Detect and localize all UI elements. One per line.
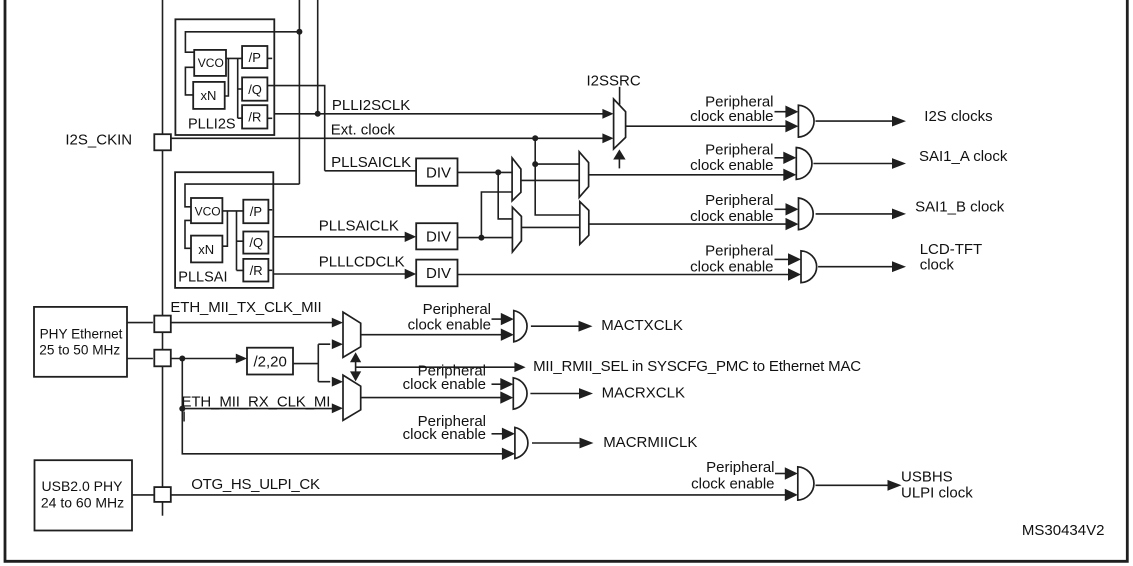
PLL block PLLSAI : outer box (175, 172, 273, 288)
wire+arrow: SAI1_B output (816, 213, 893, 215)
mux D (stage2 lower, SAI1_B) (580, 202, 589, 245)
svg-text:clock enable: clock enable (690, 258, 773, 275)
wire: xN left feedback to VCO (PLLSAI) (185, 220, 191, 248)
wire+arrow: I2S clocks output (816, 120, 893, 122)
arrow: PLLI2SCLK into I2SSRC mux input1 (602, 109, 613, 119)
svg-text:25 to 50 MHz: 25 to 50 MHz (39, 343, 120, 358)
svg-text:PLLLCDCLK: PLLLCDCLK (319, 253, 405, 270)
divider /2,20 (247, 348, 293, 375)
divider /R (PLLSAI) (243, 259, 268, 282)
wire: MII_RMII_SEL line going right (356, 366, 515, 368)
node: DIV2 output branch (478, 235, 484, 241)
wire: xN right loop (PLLSAI) (222, 211, 227, 246)
wire: PLLSAICLK lower line to DIV2 (273, 236, 405, 238)
mux C (stage2 upper, SAI1_A) (579, 152, 588, 198)
wire: DIV2 branch up to mux A input2 (481, 192, 512, 238)
svg-text:clock enable: clock enable (408, 317, 491, 334)
wire: bus between I2S pad and eth pad1 (162, 150, 164, 315)
svg-text:OTG_HS_ULPI_CK: OTG_HS_ULPI_CK (191, 476, 320, 493)
svg-text:I: I (182, 409, 186, 426)
svg-text:MII_RMII_SEL in SYSCFG_PMC to: MII_RMII_SEL in SYSCFG_PMC to Ethernet M… (533, 358, 861, 375)
arrow: /2,20 to mux F input1 (332, 377, 343, 387)
node: junction v2 / PLLI2SCLK line (315, 111, 321, 117)
gate AND (SAI1_B enable) (799, 198, 814, 230)
wire: mux A output to mux C input2 (521, 179, 579, 181)
gate AND (LCD-TFT enable) (801, 251, 817, 283)
box USB2.0 PHY (35, 460, 133, 530)
pad ETH_MII_RX_CLK (on bus) (154, 350, 171, 367)
node: eth pad2 branch (179, 356, 185, 362)
wire: bus between eth pad2 and usb pad (162, 366, 164, 487)
wire: OTG_HS_ULPI_CK line to USBHS gate (171, 494, 787, 496)
PLL block PLLI2S : outer box (175, 19, 274, 135)
wire: ETH_MII_TX_CLK_MII line to mux E input1 (171, 322, 332, 324)
svg-text:clock enable: clock enable (690, 108, 773, 125)
wire: /P output stub (PLLSAI) (268, 209, 272, 211)
wire: VCO output trunk (PLLI2S) (226, 58, 242, 118)
wire+arrows: MII_RMII_SEL select between muxes (355, 362, 357, 373)
mux A (stage1 upper) (512, 158, 521, 201)
multiplier xN (PLLI2S) (193, 82, 225, 109)
wire: xN right loop (PLLI2S) (225, 58, 229, 96)
wire: USB box to pad (132, 494, 154, 496)
svg-text:USB2.0 PHY: USB2.0 PHY (42, 478, 124, 494)
svg-text:PLLSAICLK: PLLSAICLK (331, 154, 411, 171)
svg-text:MACTXCLK: MACTXCLK (601, 317, 683, 334)
svg-text:/R: /R (248, 110, 261, 125)
svg-text:MS30434V2: MS30434V2 (1022, 522, 1105, 539)
mux B (stage1 lower) (512, 207, 521, 252)
wire: branch down from pad2 to RX line and MACRMII line (182, 359, 504, 454)
svg-text:xN: xN (198, 242, 214, 257)
svg-text:DIV: DIV (426, 164, 451, 181)
wire: bus stub below usb pad (162, 502, 164, 516)
wire: DIV2 output to mux B input2 (458, 237, 513, 239)
gate AND (MACTXCLK enable) (514, 311, 527, 342)
wire: /R output stub (PLLSAI) (268, 269, 272, 271)
gate AND (USBHS enable) (798, 467, 814, 500)
wire: I2SSRC mux output to I2S clocks gate (626, 125, 788, 127)
wire+arrow: LCD-TFT output (818, 266, 892, 268)
wire: mux C output to SAI1_A gate (589, 174, 788, 176)
svg-text:clock enable: clock enable (403, 376, 486, 393)
wire: PLLI2SCLK source vertical v2 from top edge (317, 0, 319, 114)
svg-text:/R: /R (250, 263, 263, 278)
divider /Q (PLLI2S) (242, 77, 267, 100)
svg-text:Peripheral: Peripheral (705, 192, 773, 209)
svg-text:/P: /P (250, 204, 262, 219)
svg-text:xN: xN (201, 88, 217, 103)
wire: ETH_MII_RX_CLK_MII line to mux F input2 (182, 408, 332, 410)
svg-text:I2S_CKIN: I2S_CKIN (65, 132, 132, 149)
gate AND (MACRMIICLK enable) (515, 427, 528, 458)
arrow: /2,20 to mux E input2 (332, 339, 343, 349)
svg-text:PLLSAICLK: PLLSAICLK (319, 217, 399, 234)
divider /P (PLLI2S) (242, 46, 267, 68)
svg-text:PLLI2SCLK: PLLI2SCLK (332, 97, 410, 114)
svg-text:/P: /P (249, 50, 261, 65)
wire: /P output stub (PLLI2S) (267, 57, 272, 59)
node: junction v1 / PLLI2S feedback (296, 29, 302, 35)
gate AND (MACRXCLK enable) (513, 378, 527, 409)
pad OTG_HS_ULPI (on bus) (154, 487, 171, 502)
wire+arrow: SAI1_A output (813, 163, 892, 165)
svg-text:SAI1_B clock: SAI1_B clock (915, 199, 1005, 216)
wire: PLL input vertical v1 from top edge down to PLLSAI feedback (298, 0, 300, 184)
svg-text:/Q: /Q (249, 235, 263, 250)
svg-text:Peripheral: Peripheral (706, 459, 774, 476)
wire: PLLI2S reference input (feedback top) (185, 32, 299, 52)
wire+arrow: MACRMIICLK output (532, 442, 580, 444)
oscillator VCO (PLLI2S) (194, 50, 226, 76)
wire: PLLLCDCLK line to DIV3 (273, 273, 405, 275)
svg-text:Peripheral: Peripheral (705, 243, 773, 260)
svg-text:PLLI2S: PLLI2S (188, 116, 236, 132)
svg-text:VCO: VCO (195, 204, 221, 218)
wire: DIV3 output long line to LCD-TFT gate (458, 274, 792, 276)
pad ETH_MII_TX_CLK (on bus) (154, 316, 171, 333)
svg-text:I2SSRC: I2SSRC (587, 72, 641, 89)
divider DIV3 (PLLLCDCLK) (416, 260, 457, 287)
wire: PHY to eth pad2 (127, 358, 153, 360)
svg-text:DIV: DIV (426, 265, 451, 282)
wire: PLLSAICLK upper line into DIV1 (325, 170, 416, 172)
wire: PLLI2SCLK line to I2SSRC mux (274, 113, 602, 115)
svg-text:Ext. clock: Ext. clock (331, 121, 396, 138)
wire: mux D output to SAI1_B gate (589, 223, 789, 225)
node: ext clock junction to select trunk (532, 135, 538, 141)
pad I2S_CKIN (154, 134, 171, 150)
svg-text:/Q: /Q (248, 82, 262, 97)
wire: I2SSRC callout line (619, 87, 621, 105)
svg-text:ULPI clock: ULPI clock (901, 485, 973, 502)
wire+arrow: MACTXCLK output (531, 325, 579, 327)
svg-text:/2,20: /2,20 (254, 353, 287, 370)
svg-text:clock enable: clock enable (403, 426, 486, 443)
svg-text:VCO: VCO (198, 56, 224, 70)
svg-text:I2S clocks: I2S clocks (924, 108, 992, 125)
divider DIV2 (PLLSAICLK from PLLSAI) (416, 223, 457, 249)
wire: Ext. clock line from I2S_CKIN pad to I2SSRC mux (171, 137, 602, 139)
wire+arrow: MACRXCLK output (530, 393, 579, 395)
wire: ext clock branch to mux C input1 (535, 163, 579, 165)
divider /R (PLLI2S) (242, 105, 267, 128)
wire: eth pad2 to /2,20 divider (171, 358, 237, 360)
oscillator VCO (PLLSAI) (191, 198, 222, 223)
wire: PLLSAI reference input (feedback top) (185, 184, 299, 207)
wire: DIV1 output to mux A input1 (458, 171, 513, 173)
svg-text:ETH_MII_TX_CLK_MII: ETH_MII_TX_CLK_MII (170, 299, 321, 316)
svg-text:clock enable: clock enable (690, 208, 773, 225)
wire: mux F output to MACRXCLK gate (361, 397, 503, 399)
svg-text:clock enable: clock enable (691, 475, 774, 492)
mux E (ethernet TX) (343, 312, 361, 357)
svg-text:USBHS: USBHS (901, 469, 953, 486)
divider /P (PLLSAI) (243, 200, 268, 224)
wire: ext clock branch trunk down (535, 138, 580, 215)
divider DIV1 (PLLSAICLK from PLLI2S/Q) (416, 158, 457, 185)
node: junction on ETH_MII_RX line (179, 406, 185, 412)
wire: xN left feedback to VCO (PLLI2S) (185, 67, 194, 95)
svg-text:clock: clock (920, 256, 955, 273)
svg-text:PLLSAI: PLLSAI (178, 270, 227, 286)
wire: VCO output trunk (PLLSAI) (222, 211, 243, 271)
svg-text:24 to 60 MHz: 24 to 60 MHz (41, 495, 124, 511)
svg-text:MACRMIICLK: MACRMIICLK (603, 434, 697, 451)
divider /Q (PLLSAI) (243, 232, 268, 254)
svg-text:PHY Ethernet: PHY Ethernet (40, 327, 123, 342)
gate AND (SAI1_A enable) (796, 148, 812, 180)
wire: mux B output to mux D input2 (521, 226, 579, 228)
wire+arrow: I2SSRC select (up arrow below mux) (618, 159, 620, 169)
mux F (ethernet RX) (343, 375, 361, 420)
svg-text:DIV: DIV (426, 229, 451, 246)
wire: PHY to eth pad1 (127, 322, 153, 324)
svg-text:SAI1_A clock: SAI1_A clock (919, 148, 1008, 165)
node: ext clock branch to mux C (532, 161, 538, 167)
wire: PLLI2S /Q output down to PLLSAICLK line (267, 86, 324, 171)
gate AND (I2S clocks enable) (798, 105, 814, 137)
wire: /R output stub (PLLI2S) (267, 117, 272, 119)
mux I2SSRC (614, 99, 626, 149)
svg-text:MACRXCLK: MACRXCLK (602, 384, 685, 401)
wire: /2,20 output trunk (293, 344, 330, 382)
node: DIV1 output branch (495, 169, 501, 175)
arrow: Ext. clock into I2SSRC mux input2 (602, 133, 613, 143)
wire: bus between eth pads (162, 332, 164, 350)
wire+arrow: USBHS ULPI output (816, 484, 888, 486)
wire: I2S_CKIN vertical bus from top edge (162, 0, 164, 134)
wire: DIV1 branch down to mux B input1 (498, 172, 512, 219)
svg-text:clock enable: clock enable (690, 157, 773, 174)
box PHY Ethernet (34, 307, 127, 377)
svg-text:ETH_MII_RX_CLK_MI: ETH_MII_RX_CLK_MI (182, 393, 331, 410)
multiplier xN (PLLSAI) (191, 236, 222, 263)
wire: mux E output to MACTXCLK gate (361, 334, 503, 336)
